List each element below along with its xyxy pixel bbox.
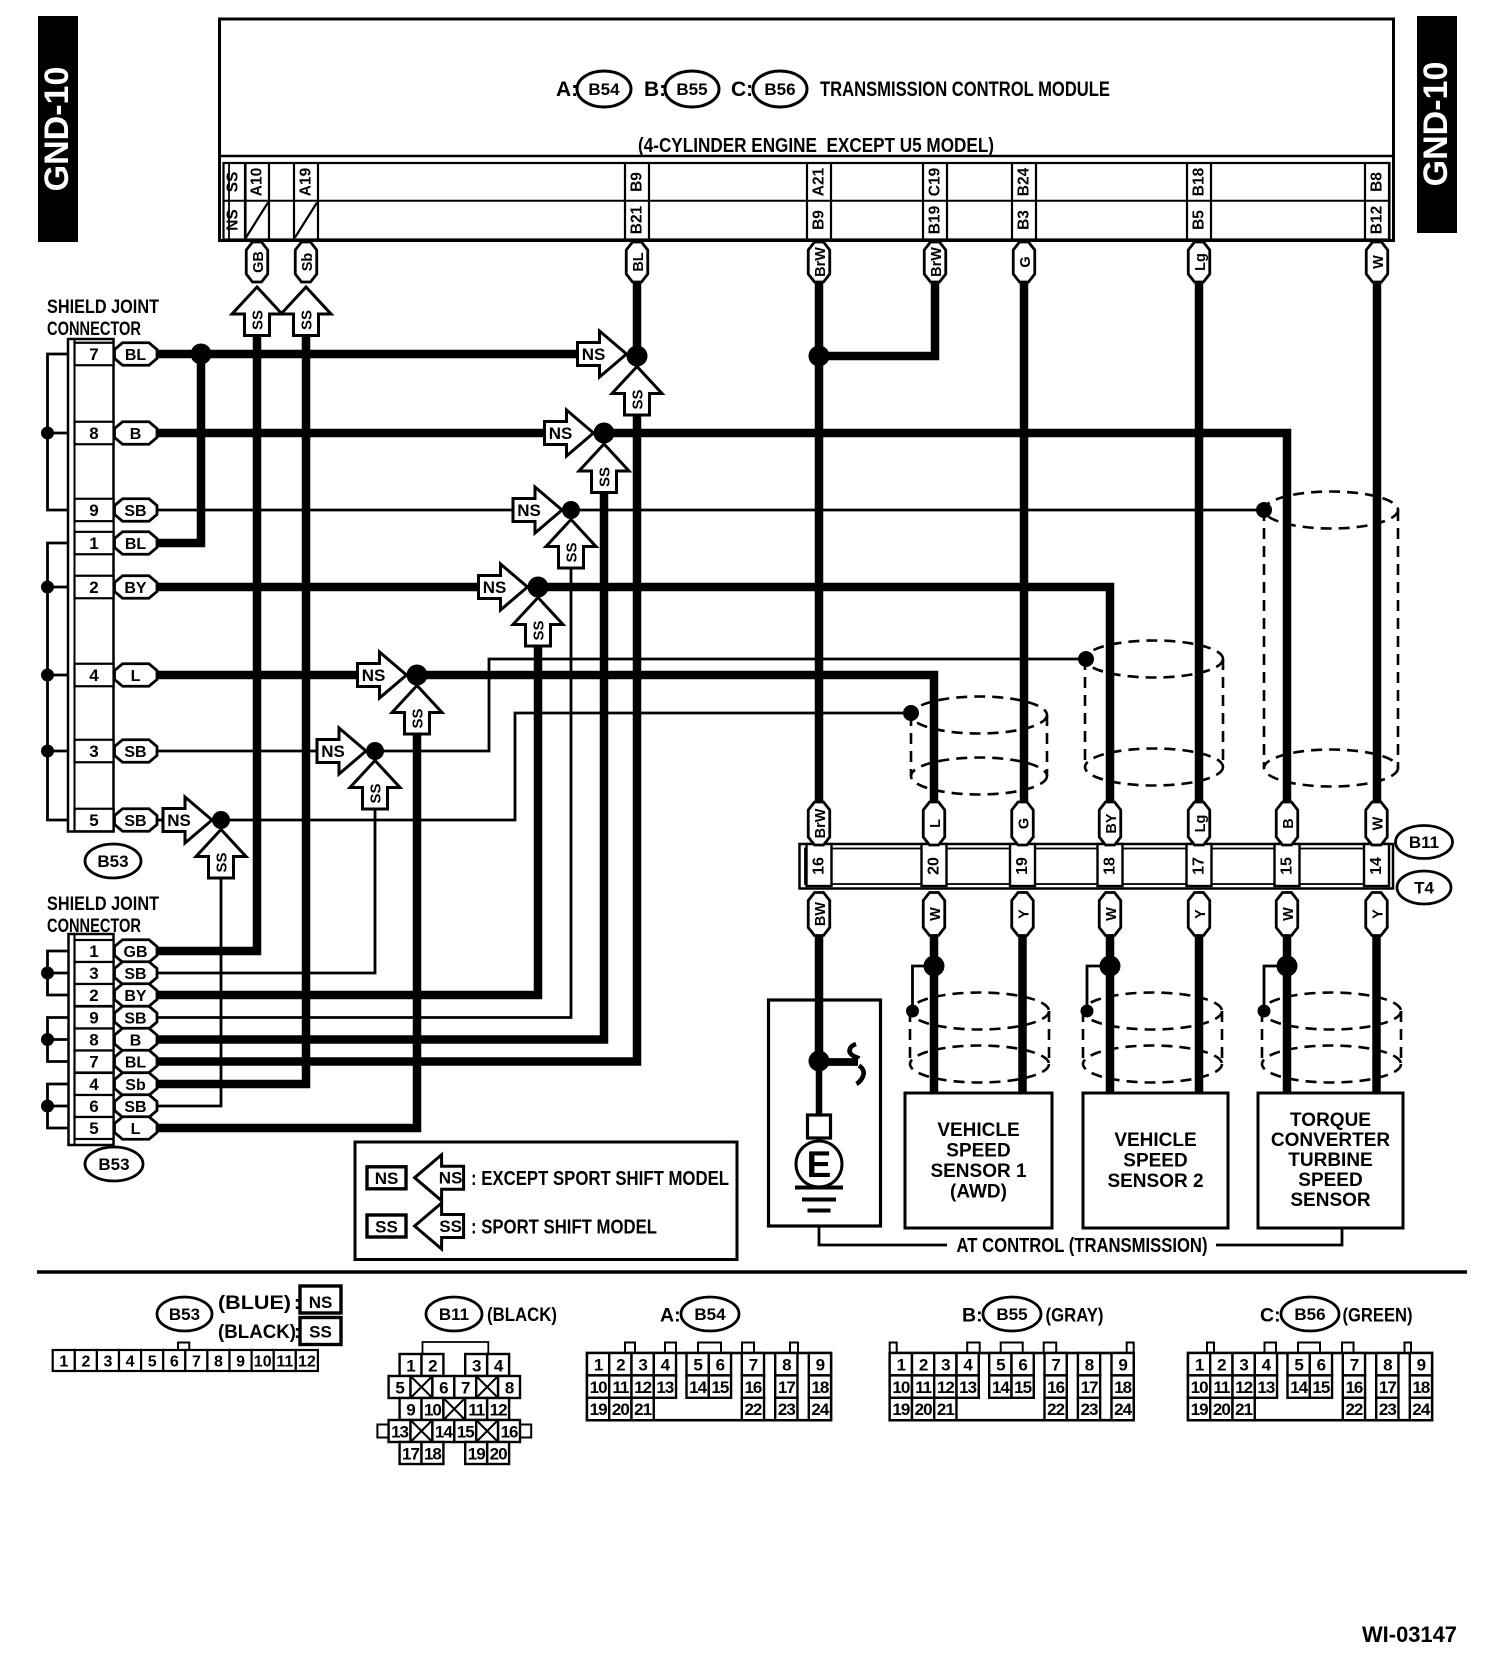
wire label Y below B11 pin 17: [1188, 893, 1210, 936]
svg-text:G: G: [1016, 818, 1032, 829]
svg-text:NS: NS: [321, 742, 345, 761]
svg-text:1: 1: [59, 1354, 68, 1371]
svg-text:BL: BL: [125, 347, 147, 364]
svg-text:A19: A19: [298, 167, 315, 196]
shield cylinder (torque converter sensor): [1262, 993, 1401, 1083]
wire label SB pin 9: [115, 499, 158, 522]
TCM pin cell C19/B19: [923, 163, 947, 240]
svg-text:17: 17: [1191, 857, 1208, 875]
NS arrow row 7: [578, 331, 627, 377]
svg-text:8: 8: [89, 1031, 98, 1050]
SS arrow row 7: [612, 367, 662, 416]
SS arrow row 2: [513, 598, 563, 647]
connector id B53 (lower): [85, 1147, 143, 1181]
svg-text:B21: B21: [629, 205, 646, 234]
svg-text:17: 17: [778, 1378, 795, 1397]
bracket pins 7-8-9: [48, 354, 69, 510]
junction row 3: [366, 742, 384, 760]
svg-text:Lg: Lg: [1193, 253, 1209, 271]
svg-text:16: 16: [501, 1423, 518, 1442]
TCM pin cell B24/B3: [1012, 163, 1036, 240]
connector B53 upper pin 4 (L): [75, 664, 114, 687]
svg-text:SS: SS: [597, 467, 614, 487]
wire BL vertical (B9/B21 down to junction row 7): [633, 282, 642, 356]
separator line: [37, 1270, 1467, 1274]
svg-text:1: 1: [89, 534, 98, 553]
connector B53 upper pin 2 (BY): [75, 576, 114, 599]
footer connector id B53: [157, 1297, 212, 1331]
svg-text:: EXCEPT SPORT SHIFT MODEL: : EXCEPT SPORT SHIFT MODEL: [471, 1168, 729, 1190]
svg-text:(4-CYLINDER ENGINE EXCEPT U5: (4-CYLINDER ENGINE EXCEPT U5 MODEL): [638, 135, 994, 157]
ground net label GND-10 (left): [38, 16, 78, 242]
svg-text:8: 8: [1085, 1355, 1094, 1374]
connector B53 upper spacer cell: [75, 521, 114, 532]
svg-text:GND-10: GND-10: [1417, 62, 1455, 187]
svg-text:14: 14: [1368, 857, 1385, 875]
shield tap B/W cylinder: [1256, 502, 1272, 518]
wire W vertical (B8/B12 to B11 pin 14): [1373, 282, 1382, 802]
wire label Y below B11 pin 14: [1366, 893, 1388, 936]
wire SB row 5 continuation to L/G shield: [226, 713, 911, 820]
svg-text:19: 19: [892, 1400, 909, 1419]
svg-text:SS: SS: [250, 310, 267, 330]
TCM pin cell B18/B5: [1187, 163, 1211, 240]
svg-text:14: 14: [689, 1378, 707, 1397]
svg-text:B55: B55: [996, 1305, 1027, 1324]
wire label G above B11 pin 19: [1012, 802, 1034, 845]
ground net label GND-10 (right): [1417, 16, 1457, 233]
TCM pin cell A19/slash: [294, 163, 318, 240]
svg-text:BW: BW: [813, 902, 829, 926]
junction W torque sensor: [1277, 956, 1298, 977]
wire BY SS branch down to B53 lower pin 2: [157, 644, 538, 995]
wire BY row 2 horizontal from B53 upper pin 2: [157, 583, 478, 592]
svg-text:SS: SS: [439, 1217, 462, 1236]
wire BL row 7 horizontal from B53 upper pin 7: [157, 350, 578, 359]
svg-text:12: 12: [634, 1378, 651, 1397]
svg-text:B53: B53: [169, 1305, 200, 1324]
svg-text:18: 18: [1412, 1378, 1429, 1397]
svg-text:8: 8: [1383, 1355, 1392, 1374]
svg-text:NS: NS: [309, 1293, 333, 1312]
svg-text:SS: SS: [410, 708, 427, 728]
svg-text:3: 3: [1239, 1355, 1248, 1374]
svg-text:GND-10: GND-10: [38, 67, 76, 192]
svg-text:BrW: BrW: [813, 247, 829, 277]
shield stub sensor 2: [1087, 966, 1110, 1005]
svg-text:BL: BL: [631, 252, 647, 271]
wire Y to speed sensor 2: [1195, 936, 1204, 1093]
svg-text:13: 13: [391, 1423, 408, 1442]
svg-text:12: 12: [490, 1401, 507, 1420]
connector B53 upper pin 7 (BL): [75, 343, 114, 366]
svg-text:(BLUE): (BLUE): [218, 1293, 291, 1314]
junction BrW pair: [809, 346, 830, 367]
wire W to speed sensor 1: [930, 936, 939, 1093]
connector B53 lower pin 5 (L): [75, 1117, 114, 1139]
svg-text:3: 3: [941, 1355, 950, 1374]
svg-text:6: 6: [439, 1379, 448, 1398]
svg-text:16: 16: [1345, 1378, 1362, 1397]
wire label G below TCM strip: [1013, 242, 1035, 282]
connector B53 lower pin 8 (B): [75, 1029, 114, 1051]
footer connector B:B55: [890, 1297, 1134, 1420]
junction ground: [809, 1051, 830, 1072]
svg-text:15: 15: [1279, 857, 1296, 875]
svg-text:7: 7: [461, 1379, 470, 1398]
connector B53 lower pin 6 (SB): [75, 1095, 114, 1117]
wire label BL lower pin 7: [115, 1050, 158, 1073]
svg-text:6: 6: [1018, 1355, 1027, 1374]
svg-text:C:: C:: [1260, 1305, 1281, 1327]
SS arrow row 4: [392, 686, 442, 735]
svg-text:8: 8: [505, 1379, 514, 1398]
footer B53 color legend: [218, 1286, 341, 1345]
svg-text:WI-03147: WI-03147: [1362, 1622, 1457, 1647]
wire BrW vertical (A21/B9 down to B11 pin 16): [815, 282, 824, 802]
torque converter turbine speed sensor box: [1258, 1093, 1403, 1228]
svg-text:20: 20: [926, 857, 943, 875]
svg-text:10: 10: [1191, 1378, 1208, 1397]
svg-text:A10: A10: [249, 168, 266, 196]
shield tap sensor 1: [906, 1005, 919, 1018]
svg-text:A:: A:: [556, 78, 578, 101]
wire SB row 3 continuation to BY/Lg shield: [380, 659, 1086, 751]
svg-text:18: 18: [811, 1378, 828, 1397]
svg-text:6: 6: [170, 1354, 179, 1371]
ground unit box: [769, 1000, 881, 1226]
connector B53 upper pin 8 (B): [75, 422, 114, 445]
wire Sb vertical (A19 to B53 lower pin 4): [157, 333, 306, 1084]
wire label L lower pin 5: [115, 1117, 158, 1140]
junction row 7: [627, 346, 648, 367]
svg-text:12: 12: [298, 1354, 316, 1371]
svg-text:B: B: [130, 1032, 142, 1049]
TCM pin cell A10/slash: [245, 163, 269, 240]
footer B11 pin face: [377, 1342, 531, 1464]
svg-text:(BLACK): (BLACK): [487, 1305, 557, 1326]
svg-text:1: 1: [406, 1357, 415, 1376]
wire label L above B11 pin 20: [923, 802, 945, 845]
wire Lg vertical (B18/B5 to B11 pin 17): [1195, 282, 1204, 802]
ground terminal square: [808, 1115, 831, 1138]
svg-text:(GRAY): (GRAY): [1046, 1306, 1104, 1327]
svg-text:B:: B:: [644, 78, 666, 101]
wire BL SS branch down to B53 lower pin 7: [157, 413, 637, 1062]
svg-text:21: 21: [1235, 1400, 1252, 1419]
svg-text:(AWD): (AWD): [950, 1182, 1007, 1203]
svg-text:G: G: [1018, 256, 1034, 267]
svg-text:3: 3: [104, 1354, 113, 1371]
svg-text:8: 8: [89, 424, 98, 443]
svg-text:BrW: BrW: [929, 247, 945, 277]
junction row 8: [594, 423, 615, 444]
NS arrow row 8: [545, 410, 594, 456]
svg-text:C:: C:: [731, 78, 753, 101]
svg-text:SHIELD JOINT: SHIELD JOINT: [47, 297, 159, 318]
svg-text:NS: NS: [167, 811, 191, 830]
svg-text:5: 5: [89, 811, 98, 830]
NS arrow row 5: [163, 797, 212, 843]
svg-text:BY: BY: [124, 580, 147, 597]
svg-text:9: 9: [406, 1401, 415, 1420]
wire BL pin1 riser: [157, 354, 201, 543]
svg-text:12: 12: [1235, 1378, 1252, 1397]
svg-text:B19: B19: [927, 205, 944, 234]
shield stub torque sensor: [1264, 966, 1287, 1005]
bracket lower pins 4-6-5: [48, 1084, 69, 1128]
svg-text:Sb: Sb: [300, 253, 316, 272]
svg-text:5: 5: [395, 1379, 404, 1398]
svg-text:CONNECTOR: CONNECTOR: [47, 319, 141, 340]
ground lead: [816, 1061, 823, 1115]
wire label BL pin 1: [115, 532, 158, 555]
svg-text:8: 8: [782, 1355, 791, 1374]
wire Y to torque sensor: [1372, 936, 1381, 1093]
svg-text:20: 20: [490, 1445, 507, 1464]
wire label W below TCM strip: [1366, 242, 1388, 282]
svg-text:L: L: [131, 1121, 141, 1138]
svg-text:SB: SB: [124, 966, 146, 983]
svg-text:B55: B55: [676, 80, 707, 99]
svg-text:B18: B18: [1191, 167, 1208, 196]
legend box: [355, 1142, 737, 1260]
svg-text:11: 11: [1213, 1378, 1230, 1397]
SS arrow GB: [232, 287, 282, 336]
svg-text:W: W: [1370, 816, 1386, 830]
svg-text:SPEED: SPEED: [1123, 1151, 1187, 1172]
svg-text:B:: B:: [962, 1305, 983, 1327]
svg-text:SPEED: SPEED: [946, 1141, 1010, 1162]
wire BrW link from C19/B19: [825, 282, 935, 356]
svg-text:SPEED: SPEED: [1298, 1170, 1362, 1191]
vehicle speed sensor 2 box: [1083, 1093, 1228, 1228]
shield tap torque sensor: [1258, 1005, 1271, 1018]
wire GB vertical (A10 to B53 lower pin 1): [157, 333, 257, 951]
svg-text:SS: SS: [375, 1218, 398, 1237]
svg-text:9: 9: [1417, 1355, 1426, 1374]
svg-text:9: 9: [816, 1355, 825, 1374]
svg-text:(BLACK): (BLACK): [218, 1322, 296, 1343]
svg-text:SB: SB: [124, 1099, 146, 1116]
svg-text:SS: SS: [564, 542, 581, 562]
svg-text:BL: BL: [125, 1054, 147, 1071]
TCM pin cell B8/B12: [1365, 163, 1389, 240]
wire label SB lower pin 9: [115, 1006, 158, 1029]
svg-text:B54: B54: [694, 1305, 726, 1324]
svg-text:15: 15: [457, 1423, 474, 1442]
svg-text:BrW: BrW: [813, 808, 829, 838]
svg-text:12: 12: [937, 1378, 954, 1397]
wire W to speed sensor 2: [1106, 936, 1115, 1093]
svg-text:NS: NS: [375, 1169, 399, 1188]
svg-text:23: 23: [1081, 1400, 1098, 1419]
connector B53 lower pin 2 (BY): [75, 984, 114, 1006]
svg-text:6: 6: [89, 1097, 98, 1116]
svg-text:4: 4: [89, 1075, 99, 1094]
svg-text:19: 19: [468, 1445, 485, 1464]
svg-text:16: 16: [1047, 1378, 1064, 1397]
svg-text:11: 11: [915, 1378, 932, 1397]
svg-text:TURBINE: TURBINE: [1288, 1150, 1372, 1171]
ground bars: [795, 1186, 843, 1190]
svg-text:Y: Y: [1016, 909, 1032, 919]
B11 pin 16 cell: [807, 844, 832, 886]
svg-text:B9: B9: [629, 172, 646, 192]
svg-text:: SPORT SHIFT MODEL: : SPORT SHIFT MODEL: [471, 1217, 657, 1239]
svg-text:W: W: [1281, 907, 1297, 921]
svg-text:6: 6: [1317, 1355, 1326, 1374]
svg-text:13: 13: [959, 1378, 976, 1397]
SS arrow row 8: [579, 444, 629, 493]
svg-text:5: 5: [996, 1355, 1005, 1374]
shield tap BY/Lg cylinder: [1078, 651, 1094, 667]
wire label Sb below TCM strip: [295, 242, 317, 282]
svg-text:2: 2: [1217, 1355, 1226, 1374]
svg-text:SS: SS: [299, 310, 316, 330]
svg-text:GB: GB: [124, 944, 148, 961]
wire BY row 2 continuation to B11 pin 18: [544, 587, 1110, 802]
B11 pin 20 cell: [922, 844, 947, 886]
svg-text:BL: BL: [125, 536, 147, 553]
NS arrow row 2: [479, 564, 528, 610]
svg-text:18: 18: [1102, 857, 1119, 875]
junction W sensor 2: [1100, 956, 1121, 977]
svg-text:SS: SS: [368, 783, 385, 803]
wire SB row 3 thin from B53 upper pin 3: [157, 750, 317, 753]
svg-text:A21: A21: [811, 167, 828, 196]
svg-text:2: 2: [89, 986, 98, 1005]
svg-text:NS: NS: [362, 666, 386, 685]
svg-text:Sb: Sb: [125, 1077, 146, 1094]
svg-text:6: 6: [716, 1355, 725, 1374]
connector id T4: [1397, 871, 1451, 904]
wire SB row 5 SS branch down to B53 lower pin 6: [157, 876, 221, 1106]
wire L row 4 horizontal from B53 upper pin 4: [157, 671, 357, 680]
TCM pin cell B9/B21: [625, 163, 649, 240]
svg-text:B56: B56: [764, 80, 795, 99]
svg-text:22: 22: [1345, 1400, 1362, 1419]
svg-text:B11: B11: [439, 1305, 469, 1324]
shield tap sensor 2: [1081, 1005, 1094, 1018]
wire SB row 9 continuation to B/W shield: [576, 509, 1264, 512]
svg-text:10: 10: [892, 1378, 909, 1397]
svg-text:SENSOR: SENSOR: [1290, 1190, 1371, 1211]
svg-text:B53: B53: [98, 1155, 129, 1174]
svg-text:14: 14: [992, 1378, 1010, 1397]
wire Y to speed sensor 1: [1018, 936, 1027, 1093]
svg-text:14: 14: [1290, 1378, 1308, 1397]
ground hook curl: [825, 1058, 858, 1066]
svg-text:4: 4: [126, 1354, 135, 1371]
svg-text:18: 18: [1114, 1378, 1131, 1397]
connector B53 upper pin 9 (SB): [75, 499, 114, 522]
svg-text:23: 23: [778, 1400, 795, 1419]
svg-text:2: 2: [616, 1355, 625, 1374]
junction W sensor 1: [924, 956, 945, 977]
svg-text:5: 5: [89, 1119, 98, 1138]
svg-text:2: 2: [428, 1357, 437, 1376]
wire SB row 5 thin from B53 upper pin 5: [157, 819, 165, 822]
svg-text:1: 1: [1195, 1355, 1204, 1374]
B11 pin 17 cell: [1187, 844, 1212, 886]
bracket pins 1-2-4-3-5: [48, 543, 69, 820]
junction row 7 riser: [191, 344, 212, 365]
svg-text:24: 24: [1114, 1400, 1132, 1419]
B11 pin 18 cell: [1098, 844, 1123, 886]
svg-text:SS: SS: [309, 1323, 332, 1342]
connector B53 upper pin 5 (SB): [75, 809, 114, 832]
TCM pin cell A21/B9: [807, 163, 831, 240]
svg-text:7: 7: [1051, 1355, 1060, 1374]
SS arrow row 5: [196, 830, 246, 879]
svg-text:W: W: [1371, 255, 1387, 269]
svg-text:B3: B3: [1016, 210, 1033, 230]
svg-text:1: 1: [89, 942, 98, 961]
wire L SS branch down to B53 lower pin 5: [157, 732, 417, 1128]
svg-text:B: B: [1281, 818, 1297, 828]
svg-text:19: 19: [590, 1400, 607, 1419]
connector strip B11/T4: [800, 844, 1394, 889]
svg-text:20: 20: [1213, 1400, 1230, 1419]
connector id B11: [1396, 826, 1453, 859]
svg-text:SS: SS: [531, 620, 548, 640]
connector B53 lower pin 3 (SB): [75, 962, 114, 984]
svg-text:19: 19: [1191, 1400, 1208, 1419]
vehicle speed sensor 1 box: [905, 1093, 1052, 1228]
bracket lower pins 1-3-2: [48, 951, 69, 995]
connector id B53 (upper): [85, 844, 141, 878]
wire label BrW below TCM strip: [924, 242, 946, 282]
wire B row 8 horizontal from B53 upper pin 8: [157, 429, 544, 438]
wire label SB lower pin 3: [115, 962, 158, 985]
svg-text:E: E: [807, 1144, 832, 1185]
svg-text:13: 13: [1257, 1378, 1274, 1397]
connector B53 lower pin 4 (Sb): [75, 1073, 114, 1095]
connector B53 upper pin 3 (SB): [75, 740, 114, 763]
svg-text:15: 15: [1014, 1378, 1031, 1397]
svg-text:B53: B53: [97, 852, 128, 871]
wire SB row 9 SS branch down to B53 lower pin 9: [157, 566, 571, 1018]
connector B53 lower body: [69, 934, 114, 1145]
svg-text:20: 20: [915, 1400, 932, 1419]
svg-text:(GREEN): (GREEN): [1343, 1306, 1413, 1327]
wire label BY above B11 pin 18: [1099, 802, 1121, 845]
svg-text:TRANSMISSION CONTROL MODULE: TRANSMISSION CONTROL MODULE: [820, 78, 1110, 101]
svg-text:NS: NS: [439, 1169, 463, 1188]
svg-text:NS: NS: [582, 345, 606, 364]
wire W to torque sensor: [1283, 936, 1292, 1093]
svg-text:SS: SS: [214, 852, 231, 872]
svg-text:B24: B24: [1016, 167, 1033, 196]
wire SB row 3 SS branch down to B53 lower pin 3: [157, 807, 375, 973]
svg-text:1: 1: [594, 1355, 603, 1374]
junction row 9: [562, 501, 580, 519]
svg-text:AT CONTROL (TRANSMISSION): AT CONTROL (TRANSMISSION): [957, 1235, 1208, 1257]
shield cylinder (L/G pair): [911, 697, 1047, 795]
svg-text:SENSOR 2: SENSOR 2: [1107, 1171, 1203, 1192]
svg-text:7: 7: [89, 345, 98, 364]
svg-text:NS: NS: [549, 424, 573, 443]
svg-text:18: 18: [424, 1445, 441, 1464]
svg-text:SS: SS: [630, 389, 647, 409]
svg-text:SB: SB: [124, 813, 146, 830]
connector B53 lower pin 7 (BL): [75, 1051, 114, 1073]
svg-text:7: 7: [192, 1354, 201, 1371]
svg-text:24: 24: [1412, 1400, 1430, 1419]
svg-text:NS: NS: [483, 578, 507, 597]
svg-text:B54: B54: [588, 80, 620, 99]
